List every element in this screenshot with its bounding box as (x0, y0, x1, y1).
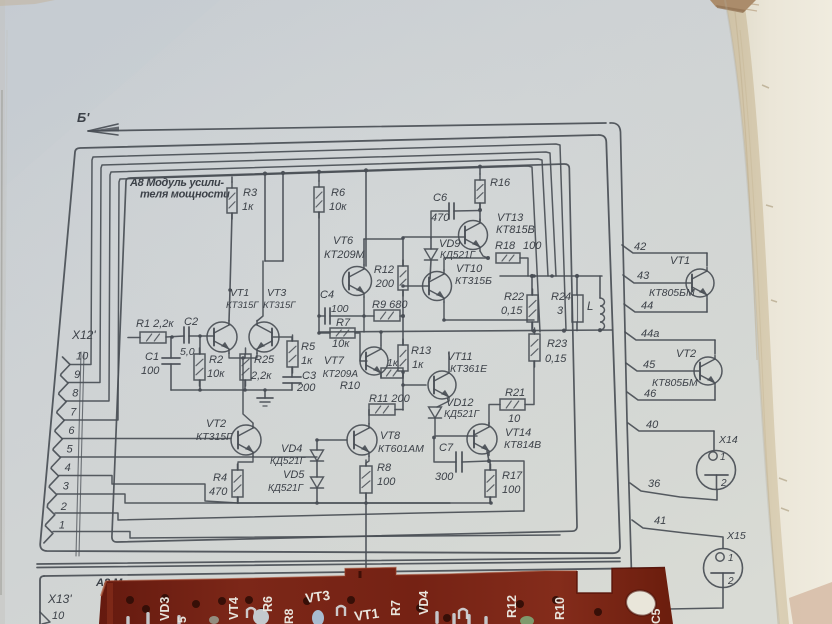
wire R17 return box (489, 461, 524, 511)
svg-text:C4: C4 (320, 289, 334, 301)
label R23 (545, 338, 568, 365)
wire VT8 emitter (366, 456, 369, 466)
transistor VT2 internal (231, 424, 261, 457)
svg-text:10: 10 (76, 351, 89, 363)
wire C1 stem (170, 337, 172, 390)
wire R16 column (479, 169, 481, 221)
resistor R18 (496, 253, 520, 263)
wire VT10 base left (403, 285, 429, 287)
resistor R3 (227, 182, 237, 219)
diode VD5 (311, 477, 324, 488)
label VT2 int (196, 418, 233, 443)
label VT13 (496, 212, 535, 236)
capacitor C1 (162, 358, 180, 364)
svg-text:R22: R22 (504, 291, 524, 303)
wire VT6 top (363, 239, 365, 265)
svg-text:470: 470 (431, 212, 450, 224)
wire VD9 wire (430, 238, 431, 279)
svg-text:КТ209А: КТ209А (323, 369, 359, 380)
wire lead 42 (622, 245, 707, 253)
transistor VT10 (423, 270, 452, 302)
wire C4 right (330, 315, 364, 317)
wire bottom double line (37, 558, 620, 568)
node dot VT13 emitter (486, 256, 490, 260)
wire VT10 collector rail (444, 258, 488, 270)
module title А8 (129, 177, 230, 201)
node dot R13 col (401, 370, 405, 387)
transistor VT8 (347, 424, 377, 457)
wire 42 to VT1 collector (706, 253, 708, 266)
wire R25 stem (244, 354, 246, 390)
resistor R10 (381, 368, 403, 378)
svg-text:С5: С5 (649, 608, 663, 624)
frame upper figure (40, 135, 620, 553)
wire R12 column (402, 239, 404, 345)
svg-text:1: 1 (59, 519, 65, 531)
resistor R13 (398, 339, 408, 377)
svg-text:R9 680: R9 680 (372, 299, 408, 311)
label VT7 (323, 355, 359, 380)
svg-text:VT7: VT7 (324, 355, 345, 367)
label R8 (377, 462, 396, 488)
svg-text:VT2: VT2 (676, 348, 696, 360)
resistor R22 (527, 289, 538, 328)
svg-text:1к: 1к (387, 357, 399, 369)
svg-text:C1: C1 (145, 351, 159, 363)
svg-text:300: 300 (435, 471, 454, 483)
svg-text:R7: R7 (389, 600, 403, 616)
label R7 (332, 317, 351, 350)
wire pin6 (62, 438, 231, 440)
svg-text:100: 100 (523, 240, 542, 252)
resistor R11 (369, 404, 395, 415)
svg-text:R13: R13 (411, 345, 432, 357)
wire R9 left (364, 315, 374, 317)
svg-text:C2: C2 (184, 316, 198, 328)
svg-text:L: L (587, 301, 593, 313)
svg-text:R25: R25 (254, 354, 275, 366)
label C1 (141, 351, 160, 377)
module box А8 (112, 164, 577, 542)
wire lead 45 (626, 363, 699, 371)
diode VD9 (425, 249, 438, 260)
svg-text:40: 40 (646, 419, 659, 431)
svg-text:R12: R12 (505, 595, 519, 618)
resistor R16 (475, 174, 485, 209)
svg-text:VT11: VT11 (447, 351, 472, 363)
label R3 (242, 187, 258, 213)
svg-text:VT8: VT8 (380, 430, 401, 442)
wire R6 column (318, 172, 320, 332)
svg-text:R24: R24 (551, 291, 571, 303)
svg-text:2,2к: 2,2к (250, 370, 272, 382)
wire R8 bottom (365, 493, 367, 503)
svg-text:КТ601АМ: КТ601АМ (378, 443, 424, 455)
wire lead 46 (627, 392, 715, 400)
label VT10 (455, 263, 492, 287)
label R10 (340, 357, 399, 392)
wire lead 40 (628, 423, 714, 431)
wire VT11 base (403, 384, 426, 386)
svg-text:VT13: VT13 (497, 212, 524, 224)
wire R22 stems (531, 276, 533, 331)
svg-text:R6: R6 (331, 187, 346, 199)
wire VT10 emitter rail (444, 302, 534, 320)
node dot diode top (315, 438, 319, 442)
wire R17 stems (489, 461, 491, 503)
svg-text:VT14: VT14 (505, 427, 531, 439)
svg-text:2: 2 (727, 576, 734, 587)
wire VT11 collector (437, 401, 449, 407)
svg-text:VT4: VT4 (227, 597, 241, 620)
resistor R9 (374, 310, 400, 321)
wire lead 41 (632, 520, 723, 549)
wire diode column (316, 440, 318, 503)
node dot VT6 emitter col (362, 314, 366, 318)
wire ground rail bottom (238, 502, 491, 504)
node dot emitter rail (442, 318, 446, 322)
node dot R16 bottom (478, 208, 482, 212)
connector X15 (704, 549, 743, 588)
label R5 (301, 341, 316, 367)
capacitor C6 (449, 203, 454, 219)
svg-text:VD12: VD12 (446, 397, 474, 409)
svg-text:10к: 10к (207, 368, 225, 380)
svg-text:10к: 10к (329, 201, 347, 213)
svg-text:КТ805БМ: КТ805БМ (649, 287, 695, 299)
wire R5 top (273, 337, 292, 341)
svg-text:КД521Г: КД521Г (270, 456, 307, 467)
svg-text:VD9: VD9 (439, 238, 460, 250)
svg-text:VD3: VD3 (158, 597, 172, 621)
wire 40 to X14 (713, 431, 715, 450)
svg-text:VT1: VT1 (670, 255, 690, 267)
svg-text:45: 45 (643, 359, 656, 371)
label C3 (296, 370, 317, 394)
svg-text:КТ315Г: КТ315Г (263, 300, 296, 311)
node dots ground rail (198, 388, 267, 392)
svg-text:C3: C3 (302, 370, 317, 382)
connector X13' chevron (40, 612, 50, 624)
resistor R2 (194, 348, 205, 386)
svg-text:5: 5 (67, 444, 74, 456)
svg-text:VD4: VD4 (417, 591, 431, 615)
node dot C4 node (317, 314, 321, 318)
label VT3 int (263, 287, 296, 311)
resistor R5 (287, 335, 298, 373)
wire R2 stem (199, 336, 201, 390)
node dots rail276 (530, 274, 579, 278)
capacitor C2 (184, 327, 189, 343)
svg-text:КД521Г: КД521Г (444, 409, 481, 420)
wire R7 left (319, 332, 330, 334)
capacitor C7 (456, 452, 462, 472)
wire link to lower figure (365, 503, 367, 576)
node dots output rail (532, 328, 602, 333)
svg-text:R10: R10 (553, 597, 567, 620)
label R2 (207, 354, 225, 380)
wire R24 stems (576, 276, 578, 331)
svg-text:C7: C7 (439, 442, 454, 454)
transistor VT2 external (694, 356, 722, 387)
svg-text:8: 8 (72, 388, 79, 400)
label VD5 (268, 469, 305, 494)
wire pin3 (57, 494, 450, 503)
wire Б' arrow line (88, 123, 606, 131)
resistor R17 (485, 464, 496, 503)
svg-text:R17: R17 (502, 470, 523, 482)
node dot R3 col (228, 288, 232, 292)
label VD9 (439, 238, 477, 261)
wire link 265-283 (265, 260, 283, 262)
svg-text:2: 2 (60, 501, 67, 513)
wire rail y276 (500, 275, 602, 277)
svg-text:X12': X12' (71, 328, 96, 342)
wire C7 right (462, 461, 489, 462)
svg-text:R10: R10 (340, 380, 361, 392)
node dot VT14 emitter (487, 459, 491, 463)
svg-text:R4: R4 (213, 472, 227, 484)
resistor R23 (529, 328, 540, 367)
svg-text:КТ209М: КТ209М (324, 249, 366, 261)
svg-text:X13': X13' (47, 592, 72, 606)
PCB board photo (99, 568, 673, 624)
wire pin4 (59, 476, 238, 504)
svg-text:5,0: 5,0 (180, 346, 195, 358)
svg-text:0,15: 0,15 (501, 305, 523, 317)
svg-text:100: 100 (331, 303, 349, 315)
wire R9 right (400, 315, 403, 317)
svg-text:R8: R8 (377, 462, 392, 474)
wire R11 right (395, 409, 403, 411)
svg-text:R8: R8 (282, 608, 296, 624)
wire pin7 bus (64, 166, 540, 420)
capacitor C3 (283, 377, 301, 383)
node dot VT10 base (401, 284, 405, 288)
svg-text:Б': Б' (77, 110, 90, 125)
svg-text:9: 9 (74, 369, 80, 381)
resistor R6 (314, 181, 324, 218)
svg-text:200: 200 (296, 382, 316, 394)
svg-text:КТ361Е: КТ361Е (450, 363, 488, 375)
svg-text:1к: 1к (301, 355, 313, 367)
wire R10 ends (403, 372, 404, 374)
label VT8 (378, 430, 424, 455)
wire VT3 collector drop (257, 261, 263, 321)
wire lead 44a (625, 332, 715, 340)
resistor R21 (500, 399, 525, 410)
wire 46 to VT2 emitter (714, 387, 716, 400)
wire vertical x283 (282, 173, 284, 261)
label R13 (411, 345, 432, 371)
node dot R12 bottom (401, 314, 405, 318)
wire lead 43 (623, 275, 691, 283)
diode VD12 (429, 407, 442, 418)
wire 44a to VT2 collector (714, 340, 716, 354)
wire R1 left (128, 337, 140, 339)
connector X12' pin chevrons (44, 357, 70, 543)
node dot R7 left (317, 331, 321, 335)
svg-text:R12: R12 (374, 264, 394, 276)
svg-text:3: 3 (557, 305, 564, 317)
label R6 (329, 187, 347, 213)
wire R13 column (402, 371, 404, 410)
wire ground rail (171, 389, 292, 391)
svg-text:6: 6 (68, 425, 75, 437)
label VT6 (324, 235, 366, 261)
wire pin10 bus (70, 144, 566, 365)
svg-text:1: 1 (720, 452, 726, 463)
transistor VT3 internal (249, 321, 279, 354)
svg-text:100: 100 (141, 365, 160, 377)
resistor R1 (140, 332, 166, 343)
wire bus L1 right side (610, 123, 633, 624)
wire R4 bottom (237, 497, 239, 503)
svg-text:100: 100 (377, 476, 396, 488)
svg-text:R16: R16 (490, 177, 511, 189)
svg-text:VT3: VT3 (267, 287, 286, 299)
svg-text:КТ315Г: КТ315Г (226, 300, 259, 311)
svg-text:100: 100 (502, 484, 521, 496)
svg-text:R23: R23 (547, 338, 568, 350)
PCB component leads (126, 606, 534, 624)
transistor VT1 external (686, 268, 714, 299)
node dots top rail (263, 165, 482, 176)
svg-text:С6: С6 (433, 192, 448, 204)
svg-text:44а: 44а (641, 328, 659, 340)
label R24 (551, 291, 571, 317)
svg-text:VT6: VT6 (333, 235, 354, 247)
svg-text:44: 44 (641, 300, 653, 312)
node dot VT13 base rail (401, 236, 405, 240)
svg-text:36: 36 (648, 478, 661, 490)
svg-text:X14: X14 (718, 434, 738, 446)
label R4 (209, 472, 228, 498)
label C7 (435, 442, 454, 483)
node dot C7 base (432, 436, 436, 440)
wire tail down (243, 358, 253, 423)
svg-text:VD5: VD5 (283, 469, 305, 481)
resistor R8 (360, 460, 372, 499)
svg-text:10: 10 (52, 610, 65, 622)
node dots bottom rail (315, 501, 493, 505)
label VT1 ext (649, 255, 695, 299)
inductor L (600, 276, 605, 330)
svg-text:3: 3 (63, 481, 70, 493)
transistor VT6 (343, 265, 372, 297)
transistor VT11 (428, 370, 456, 401)
label C6 (431, 192, 450, 224)
svg-text:470: 470 (209, 486, 228, 498)
svg-text:200: 200 (375, 278, 395, 290)
svg-text:VT2: VT2 (206, 418, 226, 430)
svg-text:X15: X15 (726, 530, 746, 542)
wire 44 to VT1 emitter (706, 299, 708, 312)
svg-text:43: 43 (637, 270, 650, 282)
label C4 (320, 289, 349, 315)
connector X12' double line (76, 352, 84, 556)
transistor VT1 internal (207, 321, 237, 354)
transistor VT13 (459, 219, 488, 251)
svg-text:КТ315Г: КТ315Г (196, 431, 233, 443)
wire VT13 emitter (480, 251, 488, 258)
transistor VT14 (467, 423, 497, 456)
svg-text:R3: R3 (243, 187, 258, 199)
label R25 (250, 354, 275, 382)
wire Б' arrowhead (88, 124, 119, 135)
wire R3 column (229, 177, 232, 321)
wire pin5 (60, 456, 317, 458)
frame lower figure top (40, 576, 44, 624)
svg-text:10к: 10к (332, 338, 350, 350)
svg-text:0,15: 0,15 (545, 353, 567, 365)
resistor R24 wirewound (572, 295, 583, 322)
wire C6 right (454, 210, 480, 213)
node dot R2 tap (198, 334, 202, 338)
wire lead 44 (624, 304, 707, 312)
svg-text:4: 4 (65, 462, 71, 474)
svg-text:VT10: VT10 (456, 263, 483, 275)
wire VT13 base rail (364, 237, 465, 239)
wire R23 bottom (525, 361, 534, 405)
svg-text:R7: R7 (336, 317, 351, 329)
wire vertical x366 (365, 170, 367, 266)
svg-text:R5: R5 (301, 341, 316, 353)
svg-text:КТ805БМ: КТ805БМ (652, 377, 698, 389)
label R12 (374, 264, 395, 290)
wire pin8 bus (66, 159, 548, 401)
label R17 (502, 470, 523, 496)
svg-text:КД521Г: КД521Г (440, 250, 477, 261)
svg-text:R11 200: R11 200 (369, 393, 411, 405)
resistor R25 (240, 348, 251, 386)
node dot VT7 top (379, 330, 383, 334)
wire VT7 emitter top (380, 332, 382, 345)
wire C6 left (431, 211, 449, 238)
capacitor C4 (325, 308, 330, 324)
label VT14 (504, 427, 541, 451)
svg-text:10: 10 (508, 413, 521, 425)
svg-text:1: 1 (728, 553, 734, 564)
wire lead 36 (630, 483, 717, 500)
svg-text:1к: 1к (412, 359, 424, 371)
label C2 (180, 316, 198, 358)
ground symbol (257, 390, 273, 406)
wire pin1 (53, 532, 560, 539)
label VD12 (444, 397, 481, 420)
wire VT2 emitter (238, 456, 253, 470)
svg-text:41: 41 (654, 515, 666, 527)
svg-text:R18: R18 (495, 240, 516, 252)
wire pin9 bus (68, 152, 556, 383)
svg-text:КТ815В: КТ815В (496, 224, 535, 236)
wire R21 left (489, 405, 500, 425)
label VT1 int (226, 287, 259, 311)
wire vertical x265 (264, 174, 266, 261)
wire C4 left (319, 315, 325, 317)
node dot tail (241, 356, 245, 360)
wire VT8 base (317, 439, 347, 441)
label VT2 ext (652, 348, 698, 389)
label R21 (505, 387, 525, 425)
svg-text:КТ814В: КТ814В (504, 439, 541, 451)
svg-text:42: 42 (634, 241, 646, 253)
resistor R4 (232, 464, 243, 503)
svg-text:теля мощности: теля мощности (140, 189, 230, 201)
svg-text:7: 7 (70, 406, 77, 418)
wire R1-C2 (166, 336, 184, 337)
svg-text:КТ315Б: КТ315Б (455, 275, 492, 287)
